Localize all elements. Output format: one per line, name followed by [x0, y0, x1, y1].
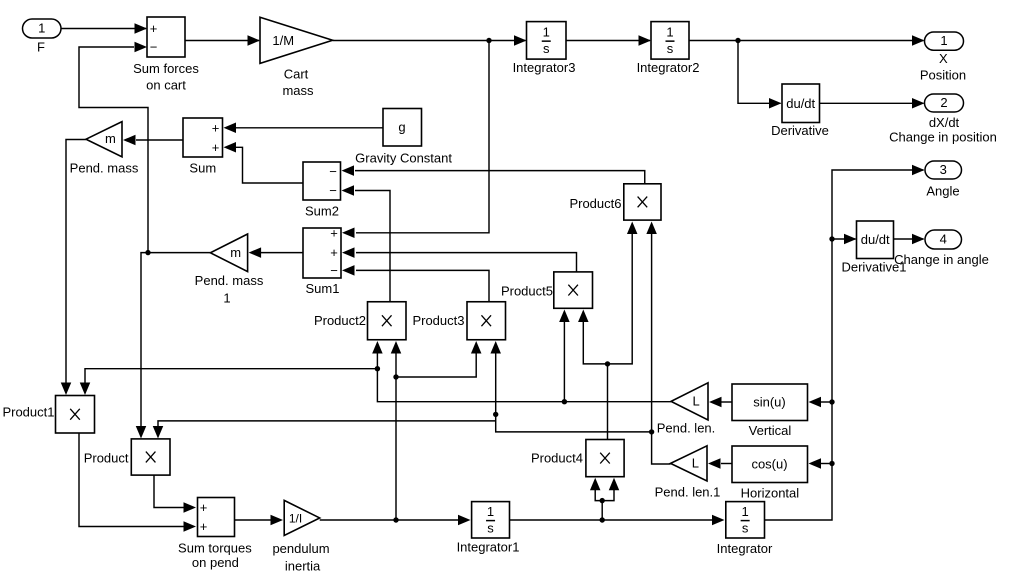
junction Product4 split: [600, 498, 605, 503]
wire angular accel riser: [395, 352, 397, 520]
wire Pend len1 out: [652, 233, 671, 465]
wire Product1 to Sum torques: [79, 433, 184, 527]
svg-text:s: s: [667, 41, 674, 56]
wire Integrator2 to Position: [689, 40, 924, 42]
wire accel to Sum1: [356, 41, 489, 233]
svg-text:−: −: [329, 183, 337, 198]
wire Product2 to Sum2: [355, 191, 390, 302]
svg-text:Product2: Product2: [314, 313, 366, 328]
junction Lsin junction2: [375, 366, 380, 371]
arrowhead into Sum forces plus: [135, 23, 148, 34]
svg-text:Integrator2: Integrator2: [637, 60, 700, 75]
svg-text:+: +: [150, 21, 158, 36]
junction sin branch: [829, 399, 834, 404]
svg-text:Derivative: Derivative: [771, 123, 829, 138]
wire Pend mass1 out: [141, 253, 210, 428]
svg-text:1: 1: [742, 504, 749, 519]
arrowhead into dX/dt port: [912, 98, 925, 109]
wire Product4 to Product5: [583, 321, 607, 364]
svg-text:cos(u): cos(u): [751, 456, 787, 471]
block Sum forces on cart: [147, 17, 185, 57]
arrowhead into Product4 in2: [609, 478, 620, 491]
wire to cos input: [820, 463, 832, 465]
wire Derivative1 to port4: [894, 238, 924, 240]
svg-text:Integrator: Integrator: [717, 541, 773, 556]
arrowhead into Integrator2: [639, 35, 652, 46]
block Integrator3: [527, 22, 567, 60]
wire cos to Pend len1: [721, 463, 732, 465]
arrowhead into Integrator1: [458, 515, 471, 526]
wire Product4 out: [607, 364, 609, 440]
junction thetadd takeoff: [393, 517, 398, 522]
junction Derivative1 branch: [829, 236, 834, 241]
wire Product4 in branch: [595, 488, 614, 501]
block Derivative1: [857, 221, 894, 259]
wire to sin input: [820, 401, 832, 403]
wire thetadd to Product3: [396, 352, 476, 377]
junction Lcos junction2: [493, 412, 498, 417]
arrowhead into Cart mass: [248, 35, 261, 46]
svg-text:pendulum: pendulum: [272, 541, 329, 556]
block Gravity Constant g: [383, 109, 422, 147]
gain Pend len L: [671, 383, 708, 420]
block Sum: [183, 118, 223, 157]
arrowhead into Product2 in2: [391, 341, 402, 354]
svg-text:Cart: Cart: [284, 67, 309, 82]
svg-text:+: +: [212, 121, 220, 136]
arrowhead into Sum1 minus: [342, 265, 355, 276]
wire Lsin to Product1: [85, 369, 377, 385]
svg-text:Change in angle: Change in angle: [894, 252, 989, 267]
arrowhead into Product3 in1: [471, 341, 482, 354]
wire Product5 to Sum1: [356, 253, 577, 272]
junction Lcos junction1: [649, 429, 654, 434]
svg-text:sin(u): sin(u): [753, 395, 786, 410]
arrowhead into Product5 in2: [578, 310, 589, 323]
arrowhead into Product4 in1: [590, 478, 601, 491]
junction Product4 out junction: [605, 361, 610, 366]
gain pendulum inertia 1/I: [284, 500, 320, 535]
arrowhead into Derivative1: [844, 234, 857, 245]
svg-text:Position: Position: [920, 68, 966, 83]
arrowhead into Sum plus1: [224, 123, 237, 134]
wire g to Sum: [236, 127, 383, 129]
svg-text:s: s: [742, 521, 749, 536]
port Outport 1 X: [925, 32, 964, 50]
svg-text:Product6: Product6: [569, 196, 621, 211]
svg-text:1/M: 1/M: [272, 33, 294, 48]
wire Cart mass to Integrator3: [333, 40, 526, 42]
wire Product6 to Sum2: [355, 171, 645, 184]
arrowhead into Product5 in1: [559, 310, 570, 323]
svg-text:Sum2: Sum2: [305, 203, 339, 218]
svg-text:3: 3: [940, 162, 947, 177]
arrowhead into Integrator3: [514, 35, 527, 46]
svg-text:1/I: 1/I: [289, 511, 302, 525]
svg-text:1: 1: [223, 291, 230, 306]
wire thetad to Product4: [601, 501, 603, 520]
block Product1: [56, 396, 95, 434]
svg-text:Angle: Angle: [926, 184, 959, 199]
junction feedback junction: [145, 250, 150, 255]
wire Lcos left branch: [496, 352, 652, 432]
arrowhead into Product6 in1: [627, 222, 638, 235]
arrowhead into cos: [809, 458, 822, 469]
wire Sum to Pend mass: [136, 139, 183, 141]
svg-text:+: +: [330, 245, 338, 260]
svg-text:m: m: [230, 245, 241, 260]
svg-text:+: +: [200, 519, 208, 534]
block Sum2: [303, 162, 341, 200]
arrowhead into Position port: [912, 35, 925, 46]
wire velocity to Derivative: [738, 41, 781, 104]
svg-text:−: −: [330, 263, 338, 278]
svg-text:Integrator3: Integrator3: [513, 60, 576, 75]
svg-text:Product: Product: [84, 451, 129, 466]
svg-text:−: −: [150, 40, 158, 55]
arrowhead into Sum plus2: [224, 142, 237, 153]
block Product: [131, 439, 170, 475]
svg-text:+: +: [200, 500, 208, 515]
wire Lcos to Product: [158, 421, 496, 428]
svg-text:+: +: [330, 226, 338, 241]
svg-text:Pend. mass: Pend. mass: [70, 161, 139, 176]
arrowhead into pendulum inertia: [271, 515, 284, 526]
wire Sum forces to Cart mass: [185, 40, 259, 42]
svg-text:1: 1: [38, 21, 45, 36]
arrowhead into Sum torques plus2: [184, 521, 197, 532]
svg-text:Sum torques: Sum torques: [178, 541, 252, 556]
svg-text:L: L: [693, 393, 700, 408]
svg-text:mass: mass: [282, 83, 314, 98]
svg-text:Vertical: Vertical: [749, 423, 792, 438]
junction accel branch: [486, 38, 491, 43]
svg-text:2: 2: [940, 95, 947, 110]
port Outport 2 dX/dt: [925, 94, 964, 112]
arrowhead into Pend len: [709, 397, 722, 408]
svg-text:g: g: [398, 120, 405, 135]
block Integrator: [726, 502, 765, 538]
svg-text:1: 1: [487, 504, 494, 519]
svg-text:−: −: [329, 164, 337, 179]
arrowhead into Pend mass: [123, 135, 136, 146]
arrowhead into Change in angle port: [912, 234, 925, 245]
svg-text:on pend: on pend: [192, 555, 239, 570]
arrowhead into Product2 in1: [372, 341, 383, 354]
svg-text:+: +: [212, 140, 220, 155]
svg-text:Product4: Product4: [531, 451, 583, 466]
wire Sum forces feedback: [79, 47, 148, 253]
junction thetad takeoff: [600, 517, 605, 522]
wire inertia to Integrator1: [320, 519, 460, 521]
arrowhead into Sum1 plus1: [342, 228, 355, 239]
wire Sum1 to Pend mass1: [261, 252, 303, 254]
svg-text:Pend. mass: Pend. mass: [195, 273, 264, 288]
wire Integrator to angle trunk: [765, 170, 924, 520]
svg-text:1: 1: [666, 24, 673, 39]
svg-text:Sum1: Sum1: [306, 281, 340, 296]
arrowhead into Product in2: [153, 426, 164, 439]
svg-text:Sum forces: Sum forces: [133, 61, 199, 76]
svg-text:Product1: Product1: [2, 405, 54, 420]
svg-text:m: m: [105, 131, 116, 146]
svg-text:inertia: inertia: [285, 559, 321, 574]
svg-text:s: s: [487, 521, 494, 536]
block Sum torques on pend: [198, 498, 235, 537]
svg-text:Product5: Product5: [501, 284, 553, 299]
wire Product4 to Product6: [608, 233, 633, 364]
wire Lsin to Product5: [563, 321, 565, 402]
svg-text:Integrator1: Integrator1: [457, 540, 520, 555]
wire F to Sum forces: [61, 28, 146, 30]
gain Pend len 1 L: [671, 446, 708, 481]
arrowhead into Sum2 minus1: [342, 165, 355, 176]
arrowhead into Sum2 minus2: [342, 185, 355, 196]
arrowhead into Pend len1: [708, 458, 721, 469]
gain Cart mass 1/M: [260, 17, 333, 63]
arrowhead into Product1 in1: [61, 383, 72, 396]
arrowhead into Sum forces minus: [135, 42, 148, 53]
wire Integrator1 to Integrator: [510, 519, 713, 521]
wire Pend len out: [377, 352, 671, 402]
block Product2: [368, 302, 407, 340]
block Vertical sin: [732, 384, 808, 421]
junction Lsin junction1: [562, 399, 567, 404]
wire Product3 to Sum1: [356, 270, 489, 301]
arrowhead into Integrator: [712, 515, 725, 526]
svg-text:F: F: [37, 40, 45, 55]
port Outport 4 Change in angle: [925, 230, 962, 249]
block Product3: [467, 302, 506, 340]
svg-text:on cart: on cart: [146, 78, 186, 93]
wire Integrator3 to Integrator2: [566, 40, 650, 42]
svg-text:X: X: [939, 51, 948, 66]
port Inport 1 F: [23, 19, 62, 38]
wire to Derivative1: [832, 238, 856, 240]
block Product4: [586, 440, 624, 477]
gain Pend mass 1 m: [210, 234, 247, 272]
svg-text:du/dt: du/dt: [786, 96, 815, 111]
arrowhead into Product3 in2: [490, 341, 501, 354]
svg-text:L: L: [692, 455, 699, 470]
block Horizontal cos: [732, 446, 808, 483]
svg-text:Pend. len.: Pend. len.: [657, 421, 716, 436]
arrowhead into Angle port: [912, 165, 925, 176]
block Derivative: [782, 84, 820, 123]
arrowhead into Sum1 plus2: [342, 247, 355, 258]
block Product5: [554, 272, 593, 308]
gain Pend mass m: [86, 122, 122, 157]
svg-text:Pend. len.1: Pend. len.1: [655, 485, 721, 500]
wire Derivative to port2: [820, 102, 924, 104]
block Integrator1: [472, 502, 510, 538]
svg-text:Sum: Sum: [189, 161, 216, 176]
arrowhead into Pend mass1: [249, 247, 262, 258]
arrowhead into Product1 in2: [80, 383, 91, 396]
wire Product to Sum torques: [154, 475, 184, 507]
arrowhead into sin: [809, 397, 822, 408]
junction thetadd junction: [393, 374, 398, 379]
wire sin to Pend len: [721, 401, 732, 403]
arrowhead into Sum torques plus1: [184, 502, 197, 513]
arrowhead into Product6 in2: [646, 222, 657, 235]
svg-text:4: 4: [940, 232, 947, 247]
svg-text:Change in position: Change in position: [889, 130, 997, 145]
svg-text:s: s: [543, 41, 550, 56]
junction cos branch: [829, 461, 834, 466]
port Outport 3 Angle: [925, 161, 962, 179]
wire Sum torques to inertia: [235, 519, 272, 521]
svg-text:1: 1: [940, 33, 947, 48]
svg-text:dX/dt: dX/dt: [929, 115, 960, 130]
block Sum1: [303, 228, 341, 278]
wire Pend mass down to Product1: [66, 140, 86, 385]
svg-text:1: 1: [543, 24, 550, 39]
wire Sum2 out to Sum: [236, 147, 303, 183]
block Integrator2: [651, 22, 689, 60]
svg-text:Gravity Constant: Gravity Constant: [355, 151, 452, 166]
svg-text:Product3: Product3: [412, 313, 464, 328]
svg-text:Horizontal: Horizontal: [741, 486, 800, 501]
arrowhead into Derivative: [769, 98, 782, 109]
junction velocity branch: [735, 38, 740, 43]
block Product6: [624, 184, 661, 220]
svg-text:du/dt: du/dt: [861, 232, 890, 247]
arrowhead into Product in1: [136, 426, 147, 439]
